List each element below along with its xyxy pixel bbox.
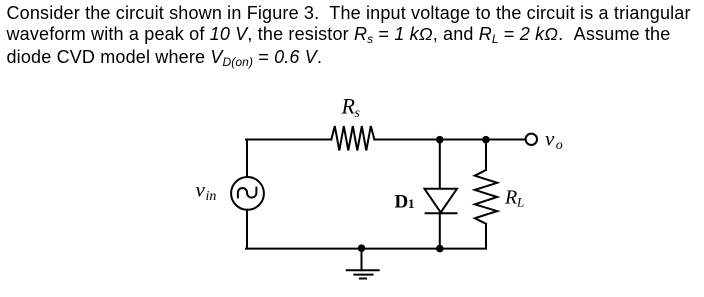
output terminal circle vo [526,134,537,145]
svg-text:L: L [516,195,524,210]
diode D1 cathode bar [426,212,457,214]
wire bottom rail [246,248,486,250]
svg-text:D: D [395,192,409,213]
svg-text:s: s [355,106,361,121]
resistor Rs zigzag [331,126,374,151]
wire source bottom vertical [246,210,248,249]
wire diode branch top [439,140,441,189]
wire RL branch bottom [485,224,487,249]
junction node ground [358,244,366,252]
source sine squiggle [238,188,257,198]
svg-text:R: R [341,94,356,119]
wire top rail right segment to output [374,139,525,141]
label RL [504,186,524,209]
ground bar 2 [354,274,372,276]
resistor RL zigzag [475,170,497,224]
junction node diode bottom [436,245,444,253]
source AC symbol circle [231,177,264,210]
wire diode branch bottom [439,213,441,248]
wire top rail left segment [246,139,331,141]
svg-text:o: o [556,138,563,153]
svg-text:R: R [504,186,517,208]
junction node RL top [482,136,490,144]
svg-text:in: in [206,189,217,204]
svg-text:v: v [545,127,555,151]
label vin [196,177,217,204]
svg-text:v: v [196,177,206,201]
diode D1 triangle [425,189,458,213]
junction node diode top [436,136,444,144]
label Rs [341,94,361,121]
wire top-left vertical (source top to top rail) [246,140,248,178]
label D1 [395,192,415,213]
ground stem [361,249,363,271]
svg-text:1: 1 [408,196,415,211]
label vo [545,127,563,153]
ground bar 3 [360,278,366,280]
ground bar 1 [347,269,379,271]
wire RL branch top [485,140,487,171]
problem statement paragraph [7,3,703,70]
